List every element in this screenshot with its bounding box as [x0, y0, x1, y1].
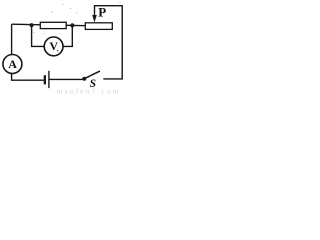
svg-text:A: A — [8, 57, 17, 71]
svg-text:P: P — [98, 4, 106, 19]
svg-text:manfen5.com: manfen5.com — [57, 86, 121, 95]
